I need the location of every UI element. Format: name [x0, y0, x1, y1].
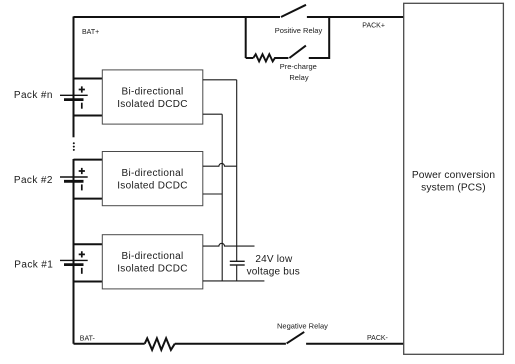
svg-text:PACK-: PACK-	[367, 335, 389, 342]
wire Pack #1 plus to DCDC	[74, 243, 103, 245]
svg-text:Relay: Relay	[289, 73, 308, 82]
svg-text:Pack #2: Pack #2	[14, 175, 53, 186]
DCDC converter U2 (Pack #2)	[102, 152, 203, 206]
PCS box Power conversion system	[404, 3, 504, 354]
svg-text:Positive Relay: Positive Relay	[275, 26, 323, 35]
svg-text:system (PCS): system (PCS)	[421, 183, 486, 194]
DCDC converter U1 (Pack #1)	[102, 235, 203, 289]
wire U1 output minus / 24V return rail	[203, 280, 265, 282]
wire U2 output plus (hops over return bus) to 24V bus	[203, 163, 237, 166]
DCDC converter U3 (Pack #n)	[102, 70, 203, 124]
battery Pack #n	[60, 86, 88, 108]
switch K1 Positive Relay (blade)	[281, 5, 306, 17]
wire 24V bus return (left vertical)	[221, 114, 223, 281]
wire U3 output plus to 24V bus	[203, 79, 237, 81]
wire PACK+ (relay right contact to PCS)	[307, 16, 404, 18]
battery Pack #1	[60, 251, 88, 273]
wire pre-charge branch left drop	[245, 17, 247, 59]
wire HV left bus upper segment	[73, 17, 75, 138]
svg-text:PACK+: PACK+	[362, 22, 385, 29]
wire U1 output plus (hops over return bus) to 24V bus	[203, 243, 255, 246]
svg-text:Isolated DCDC: Isolated DCDC	[117, 181, 188, 192]
wire Pack #2 minus to DCDC	[74, 198, 103, 200]
wire 24V bus positive (right vertical)	[236, 80, 238, 261]
svg-text:Power conversion: Power conversion	[412, 170, 495, 181]
switch K3 Negative Relay (blade)	[287, 332, 305, 344]
wire U3 output minus to 24V return bus	[203, 113, 222, 115]
wire BAT+ top bus (left bus top corner to positive relay left contact)	[74, 16, 281, 18]
wire Pack #n plus to DCDC	[74, 78, 103, 80]
capacitor C1 24V bus	[230, 261, 245, 281]
svg-text:Pack #n: Pack #n	[14, 90, 53, 101]
svg-text:Negative Relay: Negative Relay	[277, 322, 328, 331]
svg-text:Bi-directional: Bi-directional	[121, 251, 183, 262]
wire resistor to negative relay	[175, 343, 286, 345]
svg-text:Pre-charge: Pre-charge	[280, 62, 317, 71]
svg-text:Isolated DCDC: Isolated DCDC	[117, 99, 188, 110]
resistor R1	[145, 338, 175, 350]
wire Pack #1 minus to DCDC	[74, 281, 103, 283]
wire Pack #2 plus to DCDC	[74, 159, 103, 161]
svg-text:BAT-: BAT-	[80, 335, 96, 342]
resistor R2 pre-charge	[253, 54, 288, 61]
svg-text:24V low: 24V low	[255, 254, 293, 265]
wire HV left bus lower segment	[73, 159, 75, 344]
svg-text:Bi-directional: Bi-directional	[121, 168, 183, 179]
svg-text:voltage bus: voltage bus	[247, 267, 300, 278]
svg-text:BAT+: BAT+	[82, 29, 99, 36]
svg-text:Isolated DCDC: Isolated DCDC	[117, 264, 188, 275]
wire BAT- to resistor	[74, 343, 145, 345]
ellipsis more packs	[73, 142, 75, 144]
wire U2 output minus to 24V return bus	[203, 193, 222, 195]
svg-text:Pack #1: Pack #1	[14, 259, 53, 270]
wire Pack #n minus to DCDC	[74, 115, 103, 117]
switch K2 Pre-charge Relay (blade)	[289, 46, 306, 58]
wire pre-charge branch right riser	[309, 17, 329, 59]
wire pre-charge branch lead	[246, 57, 254, 59]
battery Pack #2	[60, 168, 88, 191]
svg-text:Bi-directional: Bi-directional	[121, 86, 183, 97]
wire PACK- to PCS	[306, 343, 404, 345]
